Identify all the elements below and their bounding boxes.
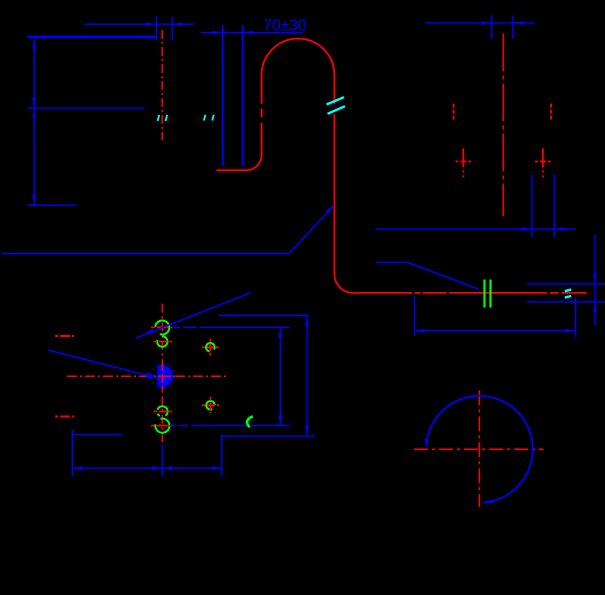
dimension line right thickness — [527, 234, 605, 325]
profile bottom horizontal with centerline continuation — [356, 292, 587, 294]
wire lower short extension line — [28, 204, 77, 206]
dimension vertical chained line left — [33, 39, 35, 205]
hole circle small top — [157, 336, 167, 346]
profile dome arc — [262, 39, 335, 75]
extension line top right of pattern — [219, 315, 309, 317]
edge line bottom left piece — [72, 433, 121, 435]
center cross small top hole — [154, 341, 173, 343]
edge centerline stub upper left — [55, 335, 75, 337]
dimension line holes spacing — [376, 175, 576, 238]
dimension line bottom width — [414, 296, 575, 338]
edge centerline stub lower left — [55, 416, 75, 418]
center cross big top hole — [151, 326, 174, 328]
centerline vertical circle view — [478, 390, 480, 507]
leader to big top hole — [136, 293, 251, 339]
break tick pair horizontal cyan right — [565, 290, 571, 298]
hole circle right top — [206, 343, 215, 352]
hole hidden dash stub left — [453, 104, 455, 121]
rotation arc blue — [426, 396, 533, 503]
wire middle extension line — [28, 107, 145, 109]
hole circle small bottom — [158, 406, 168, 415]
centerline vertical bolt view — [161, 304, 163, 447]
leader long to right profile wall — [2, 205, 334, 253]
weld symbol green double bars — [485, 280, 491, 308]
center cross right top hole — [202, 339, 219, 356]
hole center mark right — [535, 148, 551, 178]
profile right fillet — [334, 275, 355, 293]
profile left vertical with break — [261, 74, 263, 154]
centerline red long vertical right — [502, 34, 504, 217]
hole circle big bottom — [155, 419, 169, 433]
extension line center blue — [161, 444, 163, 476]
leader to weld symbol — [376, 262, 478, 289]
hole center mark left — [455, 148, 471, 178]
extension line from big top hole — [172, 326, 290, 328]
arrowhead arc left end — [425, 439, 429, 449]
dimension line small top — [84, 16, 194, 41]
center cross small bottom hole — [154, 411, 173, 413]
wire thick top edge line — [28, 36, 156, 39]
dimension line holes height inner — [279, 327, 281, 425]
center cross big bottom hole — [151, 425, 176, 427]
hole circle big top — [155, 321, 169, 335]
dimension line overall height outer — [306, 316, 308, 437]
centerline cross over datum target — [153, 363, 175, 390]
arrowhead arc bottom end — [483, 500, 493, 504]
profile left fillet — [247, 154, 262, 171]
datum target dotted ring — [151, 364, 175, 388]
centerline red vertical at slot — [161, 30, 163, 140]
extension line right — [221, 434, 223, 476]
datum target solid half disc — [157, 365, 172, 387]
center cross right bottom hole — [202, 397, 219, 413]
dimension line bottom chained — [72, 467, 222, 469]
extension line bottom right of pattern — [222, 435, 315, 437]
dimension line top right — [425, 15, 534, 38]
centerline horizontal bolt view — [67, 375, 229, 377]
profile left horizontal flange — [216, 169, 247, 171]
leader to datum target — [48, 350, 157, 378]
break tick pair on centerline — [158, 115, 214, 121]
profile right vertical with break — [333, 74, 335, 275]
arrowheads left vertical dims — [32, 39, 36, 205]
dimension line 70±30 — [201, 25, 303, 166]
hole circle right bottom — [206, 401, 215, 410]
extension line left — [71, 430, 73, 477]
hole hidden dash stub right — [550, 104, 552, 121]
svg-text:70±30: 70±30 — [264, 18, 307, 35]
break mark cyan slashes on right vertical — [327, 97, 346, 114]
centerline horizontal circle view — [414, 448, 544, 450]
extension line from big bottom hole — [169, 425, 289, 427]
rotation squiggle green — [247, 416, 253, 427]
